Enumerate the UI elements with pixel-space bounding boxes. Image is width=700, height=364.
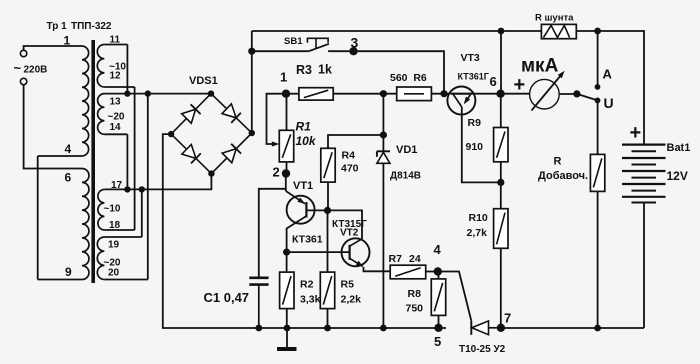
wire VT1 collector to VT2 base: [287, 251, 350, 253]
resistor R3: [299, 88, 333, 100]
node 7: [497, 324, 505, 332]
svg-text:11: 11: [110, 35, 121, 46]
wire ground rail right: [501, 327, 644, 329]
svg-text:VT1: VT1: [293, 180, 313, 192]
wire pin19: [104, 236, 141, 238]
svg-text:R7: R7: [389, 253, 403, 265]
junction VT1 base / R4 / R5 / VT2 collector: [324, 207, 331, 214]
svg-text:~: ~: [14, 61, 22, 76]
wire VD1 to ground rail: [382, 163, 384, 328]
wire node6 up to top rail: [500, 31, 502, 94]
svg-text:~20: ~20: [108, 112, 125, 123]
wire bridge minus to ground rail: [163, 134, 171, 328]
wire jumper 14-17: [126, 134, 128, 189]
svg-text:Bat1: Bat1: [667, 142, 691, 154]
wire node2 to VT1 emitter: [285, 174, 287, 192]
resistor R8: [431, 279, 445, 316]
junction R5 bottom: [324, 325, 331, 332]
svg-text:220В: 220В: [24, 65, 48, 76]
wire pin4: [38, 155, 82, 157]
secondary winding 13-14: [98, 94, 105, 135]
node 4: [434, 267, 442, 275]
wire node1 wiper branch: [267, 94, 287, 144]
node 6: [496, 90, 504, 98]
resistor R5: [320, 272, 334, 309]
primary winding 6-9: [82, 169, 89, 280]
wire SB1 feed: [252, 50, 309, 52]
wire VT1 collector down: [286, 228, 288, 272]
svg-text:560 R6: 560 R6: [390, 72, 427, 84]
svg-text:2,7k: 2,7k: [467, 227, 488, 239]
primary winding 1-4: [82, 46, 89, 156]
svg-text:R: R: [554, 156, 562, 168]
potentiometer R1: [279, 130, 293, 162]
wire jumper 17-19: [141, 189, 143, 237]
wire R4 to junction: [327, 182, 329, 210]
wire jumper 11-13: [126, 45, 128, 94]
wire plug-top to pin1: [24, 46, 82, 50]
junction pin13/20: [145, 90, 151, 96]
svg-text:U: U: [604, 95, 614, 111]
junction C1 bottom: [255, 325, 262, 332]
wire node1 to R3: [286, 93, 299, 95]
diode T10-25 U2: [470, 321, 472, 335]
AC plug terminal lower: [20, 78, 26, 84]
svg-text:A: A: [603, 67, 613, 82]
bridge corner top junction: [208, 90, 214, 96]
resistor R9: [494, 128, 508, 162]
zener diode VD1: [377, 152, 390, 163]
svg-text:R4: R4: [342, 150, 356, 162]
svg-text:1: 1: [64, 34, 71, 48]
svg-text:R9: R9: [468, 117, 482, 129]
bridge diode left-top: [171, 94, 211, 135]
resistor R2: [280, 272, 294, 309]
capacitor C1: [249, 276, 268, 279]
svg-text:910: 910: [466, 141, 484, 153]
svg-text:470: 470: [341, 163, 359, 175]
junction pin13/11: [124, 90, 130, 96]
junction pin17/14: [124, 186, 130, 192]
R1 wiper arrow: [272, 141, 280, 146]
wire pin11: [104, 44, 127, 46]
junction VT1 collector / R2 / VT2 base: [283, 249, 290, 256]
junction R9/R10/VT3 collector: [497, 179, 504, 186]
junction Radd bottom: [594, 325, 601, 332]
svg-text:R3: R3: [296, 63, 312, 77]
wire R3 to R6: [333, 93, 397, 95]
svg-text:3: 3: [351, 35, 359, 51]
wire node4 to thyristor: [438, 272, 472, 321]
svg-text:R2: R2: [300, 279, 314, 291]
svg-text:13: 13: [110, 97, 122, 108]
wire contact A to top rail: [597, 31, 599, 87]
svg-text:R5: R5: [341, 279, 355, 291]
battery Bat1: [622, 144, 666, 146]
svg-text:VT3: VT3: [461, 52, 480, 64]
junction VD1 bottom: [380, 325, 387, 332]
resistor R7: [390, 265, 426, 279]
svg-text:VD1: VD1: [396, 144, 417, 156]
wire R2 to rail: [286, 309, 288, 328]
wire pin17 to bridge bottom: [104, 174, 211, 190]
wire jumper 12-18: [134, 87, 136, 230]
junction R6/VT3 base: [440, 90, 447, 97]
resistor R4: [321, 148, 335, 182]
wire plug-bottom to pin6: [24, 85, 82, 169]
svg-text:КТ361: КТ361: [292, 234, 323, 246]
wire pin20: [104, 279, 147, 281]
wire VT3 to node 6: [472, 93, 530, 95]
wire pin18: [104, 229, 134, 231]
shunt resistor Rshunt: [541, 24, 576, 38]
contact U: [595, 98, 601, 104]
wire VT1 base: [306, 209, 327, 211]
svg-text:12: 12: [110, 71, 122, 82]
wire pin12: [104, 86, 134, 88]
node 2: [282, 169, 290, 177]
wire VT3 collector: [462, 107, 501, 182]
wire pin14: [104, 133, 127, 135]
svg-text:+: +: [630, 122, 642, 144]
svg-text:Д814В: Д814В: [390, 171, 421, 182]
svg-text:17: 17: [111, 180, 123, 191]
svg-text:6: 6: [490, 74, 497, 89]
wire pin9: [38, 279, 82, 281]
bridge diode bottom-right: [211, 133, 251, 174]
svg-text:КТ361Г: КТ361Г: [458, 72, 489, 82]
svg-text:6: 6: [65, 171, 72, 185]
wire U contact to Radd: [597, 100, 599, 154]
wire VT2 emitter to R7: [364, 267, 391, 271]
junction pin17/19: [139, 186, 145, 192]
svg-text:18: 18: [109, 220, 121, 231]
junction VD1 top: [380, 90, 387, 97]
resistor R6: [397, 87, 432, 101]
wire bridge plus up to top rail: [251, 31, 253, 133]
bridge diode top-right: [211, 94, 252, 133]
svg-text:ТПП-322: ТПП-322: [71, 21, 112, 32]
svg-text:SB1: SB1: [284, 36, 303, 47]
svg-text:20: 20: [108, 268, 120, 279]
svg-text:Тр 1: Тр 1: [47, 21, 68, 32]
svg-text:750: 750: [406, 303, 424, 315]
svg-text:мкА: мкА: [521, 56, 559, 77]
bridge corner right junction: [249, 130, 255, 136]
svg-text:R10: R10: [469, 212, 488, 224]
wire top rail left: [252, 30, 542, 32]
svg-text:4: 4: [65, 142, 72, 156]
bridge corner left junction: [168, 131, 174, 137]
wire node 3 down to R6 output: [354, 51, 445, 93]
AC plug terminal upper: [20, 50, 26, 56]
junction R4 branch: [380, 131, 387, 138]
node 5: [434, 324, 442, 332]
wire VT2 collector branch: [328, 210, 363, 239]
resistor R10: [494, 209, 508, 249]
switch blade A/U: [577, 94, 598, 101]
switch SB1: [309, 44, 329, 51]
wire R4 branch: [328, 135, 383, 148]
secondary winding 19-20: [97, 237, 104, 280]
bridge diode left-bottom: [171, 134, 211, 174]
transistor VT1: [287, 196, 315, 224]
svg-text:1k: 1k: [318, 63, 332, 77]
secondary winding 17-18: [98, 189, 105, 230]
switch pole junction: [573, 90, 580, 97]
svg-text:4: 4: [434, 242, 442, 257]
svg-text:Т10-25 У2: Т10-25 У2: [459, 344, 506, 355]
wire node6 to R9: [500, 94, 502, 128]
wire R6 to VT3: [431, 93, 450, 95]
wire node1 to R1: [286, 94, 288, 131]
wire top rail right: [577, 31, 645, 145]
svg-text:19: 19: [108, 240, 120, 251]
svg-text:~10: ~10: [104, 204, 121, 215]
wire Radd to ground rail: [597, 191, 599, 328]
wire junction to R5: [327, 210, 329, 272]
wire R8 bottom: [438, 315, 440, 327]
wire VD1 top segment: [382, 94, 384, 152]
svg-text:1: 1: [280, 70, 287, 85]
junction top rail node6 branch: [498, 28, 505, 35]
svg-text:5: 5: [434, 334, 441, 349]
wire R10 to node 7: [500, 248, 502, 327]
junction bridge plus / SB1: [248, 48, 255, 55]
transformer core: [91, 40, 95, 283]
svg-text:24: 24: [409, 253, 421, 265]
wire jumper 13-20: [147, 94, 149, 280]
secondary winding 11-12: [97, 45, 104, 88]
svg-text:VT2: VT2: [340, 228, 359, 239]
svg-text:14: 14: [110, 122, 122, 133]
wire pin13 to bridge top: [104, 93, 211, 95]
wire R5 to rail: [327, 309, 329, 328]
transistor VT2: [342, 238, 370, 266]
wire C1 branch: [259, 189, 286, 277]
node 1: [282, 90, 290, 98]
wire jumper 4-9: [37, 156, 39, 280]
wire ground rail left: [162, 327, 446, 329]
svg-text:+: +: [514, 74, 526, 96]
svg-text:3,3k: 3,3k: [300, 294, 321, 306]
ground symbol: [286, 328, 288, 348]
wire meter to switch pole: [559, 93, 577, 95]
svg-text:2: 2: [273, 165, 280, 180]
svg-text:7: 7: [504, 311, 511, 326]
wire battery to ground rail: [643, 203, 645, 329]
bridge corner bottom junction: [208, 170, 214, 176]
wire R1 to node 2: [286, 162, 288, 174]
contact A: [595, 84, 601, 90]
transistor VT3: [447, 87, 475, 115]
junction R2 bottom: [284, 325, 291, 332]
svg-text:R1: R1: [296, 120, 312, 134]
svg-text:Добавоч.: Добавоч.: [538, 170, 588, 182]
svg-text:10k: 10k: [296, 134, 317, 148]
svg-text:VDS1: VDS1: [189, 75, 218, 87]
svg-text:9: 9: [65, 265, 72, 279]
svg-text:R8: R8: [408, 288, 422, 300]
svg-text:R шунта: R шунта: [535, 13, 574, 24]
svg-text:12V: 12V: [667, 169, 688, 183]
resistor R dobavochny: [590, 154, 604, 191]
wire R9 to junction: [500, 162, 502, 209]
node 3: [349, 47, 357, 55]
svg-text:C1 0,47: C1 0,47: [204, 290, 250, 305]
junction top rail A branch: [594, 28, 601, 35]
microammeter: [530, 79, 560, 109]
wire R7 to node4: [426, 271, 438, 273]
wire SB1 to node 3: [328, 50, 353, 52]
svg-text:2,2k: 2,2k: [341, 294, 362, 306]
wire R8 top: [438, 272, 440, 279]
